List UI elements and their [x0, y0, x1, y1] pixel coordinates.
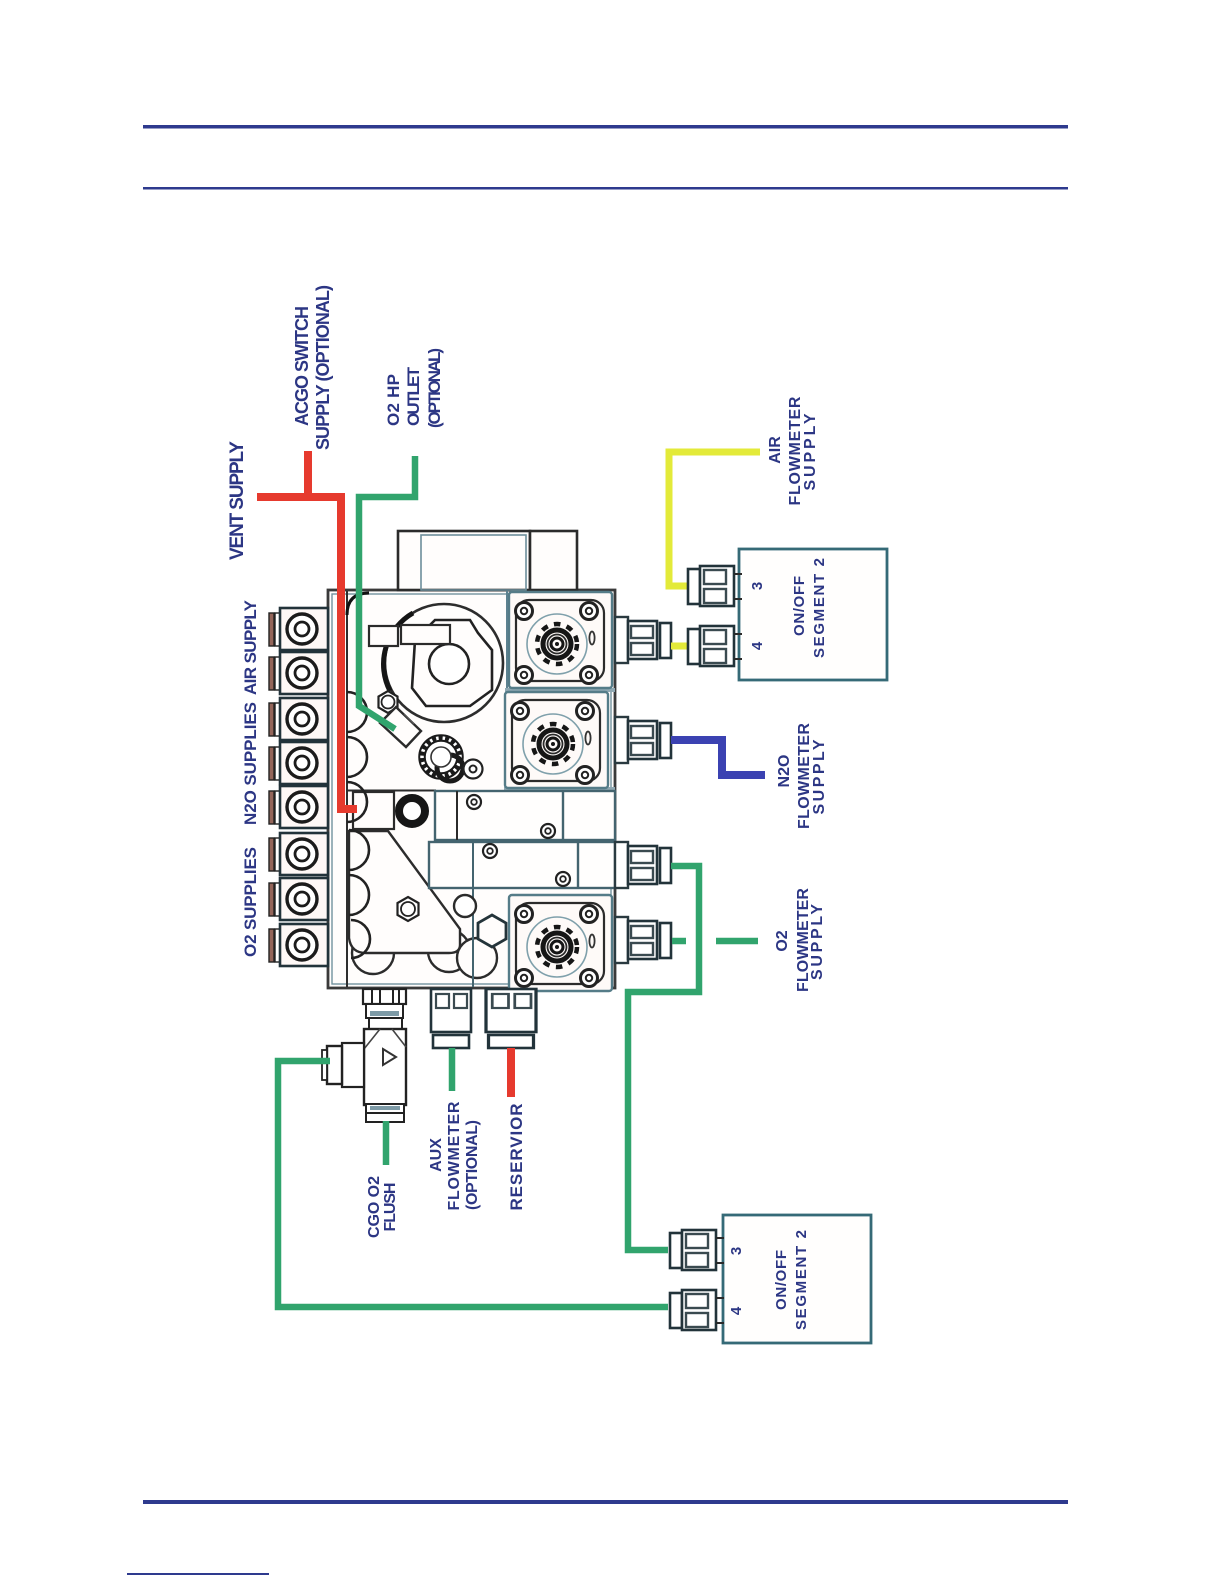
svg-text:O2 HP: O2 HP	[384, 374, 403, 426]
tube green cgo flush loop	[278, 1048, 668, 1307]
diagonal fitting stem	[380, 707, 421, 747]
supply fitting O3	[269, 924, 328, 966]
port fitting bottom 4	[670, 1290, 724, 1330]
label AIR FLOWMETER SUPPLY	[767, 396, 819, 505]
divider valve1/valve2	[505, 688, 615, 692]
svg-text:AIR: AIR	[767, 436, 784, 464]
footnote rule	[127, 1573, 269, 1575]
svg-text:3: 3	[749, 582, 766, 590]
svg-text:N2O SUPPLIES: N2O SUPPLIES	[241, 702, 260, 825]
svg-text:SEGMENT 2: SEGMENT 2	[811, 558, 828, 658]
label CGO O2 FLUSH	[366, 1176, 399, 1238]
tube blue n2o flowmeter	[671, 740, 765, 775]
diagonal ribbed nut	[422, 738, 463, 781]
tube red vent/acgo supply	[257, 451, 357, 809]
page rule bottom	[143, 1500, 1068, 1504]
strip upper	[435, 791, 615, 840]
tube yellow air flowmeter	[669, 452, 760, 646]
svg-text:N2O: N2O	[776, 755, 793, 788]
top tab right	[530, 531, 577, 590]
corner arc top-left	[347, 593, 369, 615]
svg-text:SUPPLY (OPTIONAL): SUPPLY (OPTIONAL)	[313, 285, 333, 450]
svg-text:FLUSH: FLUSH	[382, 1183, 399, 1232]
tube green o2 flowmeter dashes	[672, 938, 758, 945]
svg-text:3: 3	[728, 1247, 745, 1255]
svg-text:ON/OFF: ON/OFF	[773, 1250, 790, 1310]
outlet fitting air	[615, 617, 671, 663]
label O2 FLOWMETER SUPPLY	[774, 888, 826, 992]
box on/off segment 2 bottom	[723, 1215, 871, 1343]
supply fitting A1	[269, 608, 328, 650]
tube green o2 flowmeter	[628, 866, 699, 1250]
svg-text:(OPTIONAL): (OPTIONAL)	[425, 348, 444, 428]
svg-text:AUX: AUX	[428, 1138, 445, 1172]
supply fitting N2	[269, 742, 328, 784]
big boss circle	[384, 604, 503, 722]
svg-text:4: 4	[749, 641, 766, 650]
port fitting top 4	[688, 626, 742, 666]
bore ring	[347, 791, 436, 830]
strip to valve3 line	[472, 888, 474, 987]
label AUX FLOWMETER (OPTIONAL)	[428, 1101, 481, 1210]
left scallops	[347, 692, 370, 958]
supply fitting A2	[269, 652, 328, 694]
svg-text:VENT SUPPLY: VENT SUPPLY	[227, 441, 248, 560]
bottom circles	[352, 930, 497, 978]
svg-text:ON/OFF: ON/OFF	[791, 576, 808, 636]
top rect small	[369, 626, 398, 646]
top tab left	[398, 531, 530, 590]
svg-text:RESERVIOR: RESERVIOR	[507, 1104, 526, 1211]
svg-text:SUPPLY: SUPPLY	[811, 739, 828, 814]
supply fitting N3	[269, 786, 328, 828]
outlet fitting n2o	[615, 717, 671, 763]
wedge	[349, 831, 460, 953]
svg-text:O2: O2	[774, 930, 791, 951]
page rule top thin	[143, 187, 1068, 190]
outlet fitting o2b	[615, 917, 671, 963]
cgo tee	[322, 989, 406, 1122]
supply fitting O1	[269, 833, 328, 875]
svg-text:CGO O2: CGO O2	[366, 1176, 383, 1238]
inner wall valves	[506, 591, 508, 790]
svg-text:SUPPLY: SUPPLY	[802, 413, 819, 490]
hex bolt upper	[379, 691, 398, 713]
svg-text:AIR SUPPLY: AIR SUPPLY	[241, 599, 260, 695]
port fitting top 3	[688, 566, 742, 606]
inner wall left	[346, 591, 348, 987]
svg-text:(OPTIONAL): (OPTIONAL)	[464, 1120, 481, 1210]
port fitting bottom 3	[670, 1230, 724, 1270]
supply fitting O2	[269, 878, 328, 920]
strip lower	[429, 842, 615, 888]
label ACGO SWITCH SUPPLY (OPTIONAL)	[292, 285, 333, 450]
hex nut	[478, 915, 506, 947]
outlet fitting o2a	[615, 842, 671, 888]
svg-text:OUTLET: OUTLET	[404, 366, 423, 426]
divider valve2/strips	[504, 787, 615, 791]
aux fitting	[431, 989, 471, 1048]
box on/off segment 2 top	[739, 549, 887, 680]
valve V1	[509, 592, 612, 688]
circle near hexagon	[454, 895, 476, 917]
hex bolt lower	[398, 897, 419, 921]
svg-text:4: 4	[728, 1306, 745, 1315]
top rect wide	[401, 625, 450, 644]
bolt circle mid	[464, 760, 483, 779]
svg-text:FLOWMETER: FLOWMETER	[446, 1101, 463, 1210]
label N2O FLOWMETER SUPPLY	[776, 723, 828, 829]
svg-text:ACGO SWITCH: ACGO SWITCH	[292, 306, 312, 426]
reservoir fitting	[486, 989, 536, 1048]
tube red reservoir	[507, 1048, 515, 1097]
label O2 HP OUTLET (OPTIONAL)	[384, 348, 444, 428]
valve V3	[509, 895, 612, 991]
valve V2	[505, 692, 608, 788]
svg-text:O2 SUPPLIES: O2 SUPPLIES	[241, 847, 260, 957]
manifold body	[328, 590, 615, 988]
page rule top thick	[143, 125, 1068, 129]
svg-text:SEGMENT 2: SEGMENT 2	[793, 1230, 810, 1330]
tube green o2 hp outlet	[359, 456, 415, 729]
supply fitting N1	[269, 698, 328, 740]
